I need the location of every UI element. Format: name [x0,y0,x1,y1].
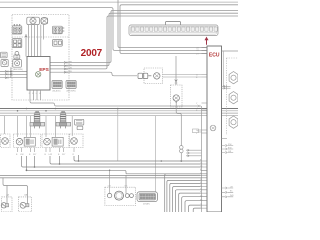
wires ECU right lower with connector pairs [222,144,234,198]
tiny connector label box at ECU left [193,129,199,133]
multi pin connector bottom center [137,192,158,202]
svg-text:Dg: Dg [200,166,202,168]
injector 2 [56,111,71,128]
bottom bus double line [0,174,201,176]
horn dashed box bottom center [105,187,136,205]
svg-text:L/W: L/W [49,154,53,156]
left entry wires with connectors [0,67,27,78]
svg-text:L: L [36,93,37,95]
sensor dashed box mid with circle [138,68,163,84]
component E sensor box [1,60,8,67]
wire EPS out 1 [50,62,64,64]
dashed box right circle [70,134,84,148]
stub wires below relay band with labels [18,148,75,153]
wire top bus line 2 with corner down at x113 [0,8,207,51]
junction dot [25,35,27,37]
wire top line y4.8 right half, corner down x120 to y53.5 [120,5,238,54]
wire top line y13.2, corner down x109 to EPS wire y65.7 [64,13,238,65]
main harness connector top right [129,22,218,36]
svg-text:W: W [39,93,41,95]
svg-text:(GRAY): (GRAY) [143,203,150,206]
bottom dashed box 1 with screw circle [2,197,12,212]
svg-text:(BROWN): (BROWN) [67,91,76,93]
stub wires mid right with arrows [186,149,202,157]
junction dots on bus [17,108,119,171]
wire top bus line 1 [0,1,238,3]
component D key switch [14,51,20,58]
component F sensor box [13,60,22,68]
wires below EPS box [30,90,41,100]
connector C right of motors [53,26,65,34]
svg-text:Lg: Lg [200,204,202,206]
svg-text:R/W: R/W [228,144,232,146]
relay dashed box 2 [42,134,69,148]
svg-text:L/R: L/R [196,47,200,49]
svg-text:Sb: Sb [200,199,202,201]
wire parallel right of ECU [222,51,224,87]
connector arrow marks on EPS wires [64,61,67,73]
spark plug hex 2 [229,92,238,104]
svg-text:B/L: B/L [230,191,233,193]
motor symbol M2 circle [41,17,48,24]
horizontal main bus band [0,108,238,110]
EPS wire stubs with connector arrows [50,63,137,76]
svg-text:L/W: L/W [20,154,24,156]
wire into horn [125,175,127,193]
svg-text:Ch: Ch [200,163,202,165]
wire EPS out 2 [50,65,64,67]
bottom right fan of L wires [165,174,201,212]
connector B 4pin mid-left [12,39,22,48]
vertical from sensor to line with inline connector [176,107,181,161]
spark plug hex 1 [229,72,238,84]
horn small circles right [125,194,129,198]
middle band verticals to components [5,109,156,194]
vertical sensor mid with dashed box [171,56,183,107]
ECU left edge pin ticks lower [201,161,208,208]
svg-text:W: W [200,179,202,181]
wire top line y16, corner down x107 to EPS wire y68.9 [64,16,238,69]
component C grid box far left [1,52,8,58]
spark plug hex 3 [229,116,238,128]
ground mark under sensor [175,100,177,102]
motor symbol M1 rounded box with circle [27,17,40,24]
small connector right of injector2 [75,119,84,129]
wire from top edge x118 down to ECU line y47.5 [118,0,207,48]
lower routing wires [22,155,201,174]
relay dashed box 1 [13,134,40,148]
wire EPS out 3 [50,68,64,70]
svg-text:B/W: B/W [228,147,232,149]
wires ECU to plug area [222,85,231,138]
dotted enclosure right [226,58,238,135]
connector A 4pin top-left [12,24,22,34]
connector block under EPS right [66,81,76,89]
ECU left tick stubs upper [202,48,208,134]
svg-text:(BROWN): (BROWN) [13,69,23,71]
svg-text:L: L [200,172,201,174]
bottom dashed box 2 with screw circle [19,197,32,212]
horn small circle left [107,193,111,197]
horn big circle [115,191,124,200]
wire ECU right top [222,50,239,52]
EPS control unit box [27,57,50,91]
svg-text:(BLACK): (BLACK) [53,90,61,93]
red arrow pointing up at ECU [206,40,208,45]
wire labels UR UB [69,61,73,73]
connector D small right [53,40,63,47]
wire top line y10.4, corner down x111 to EPS wire y62.5 [64,10,238,62]
wire from EPS area routed to ECU [30,100,200,107]
wires from motors down into EPS box [26,25,44,57]
injector 1 [30,111,45,128]
svg-text:Gy: Gy [200,195,202,197]
svg-text:Gy: Gy [196,130,199,132]
bottom left feed wires [3,178,28,204]
connector block under EPS left [52,81,62,89]
ECU box [207,46,222,212]
svg-text:ECU: ECU [209,52,220,58]
dashed box far-left circle [1,134,11,148]
vertical wire left of ECU [201,106,203,212]
wire sensor pair to ECU [163,75,202,78]
dashed partition line [12,36,69,38]
wire EPS out 4 to sensor [50,72,137,76]
ECU inner circle marker [210,125,216,131]
EPS motor circle symbol [36,72,41,77]
dashed enclosure left big box [12,15,69,101]
svg-text:2007: 2007 [81,48,103,59]
svg-text:EPS: EPS [39,67,49,73]
